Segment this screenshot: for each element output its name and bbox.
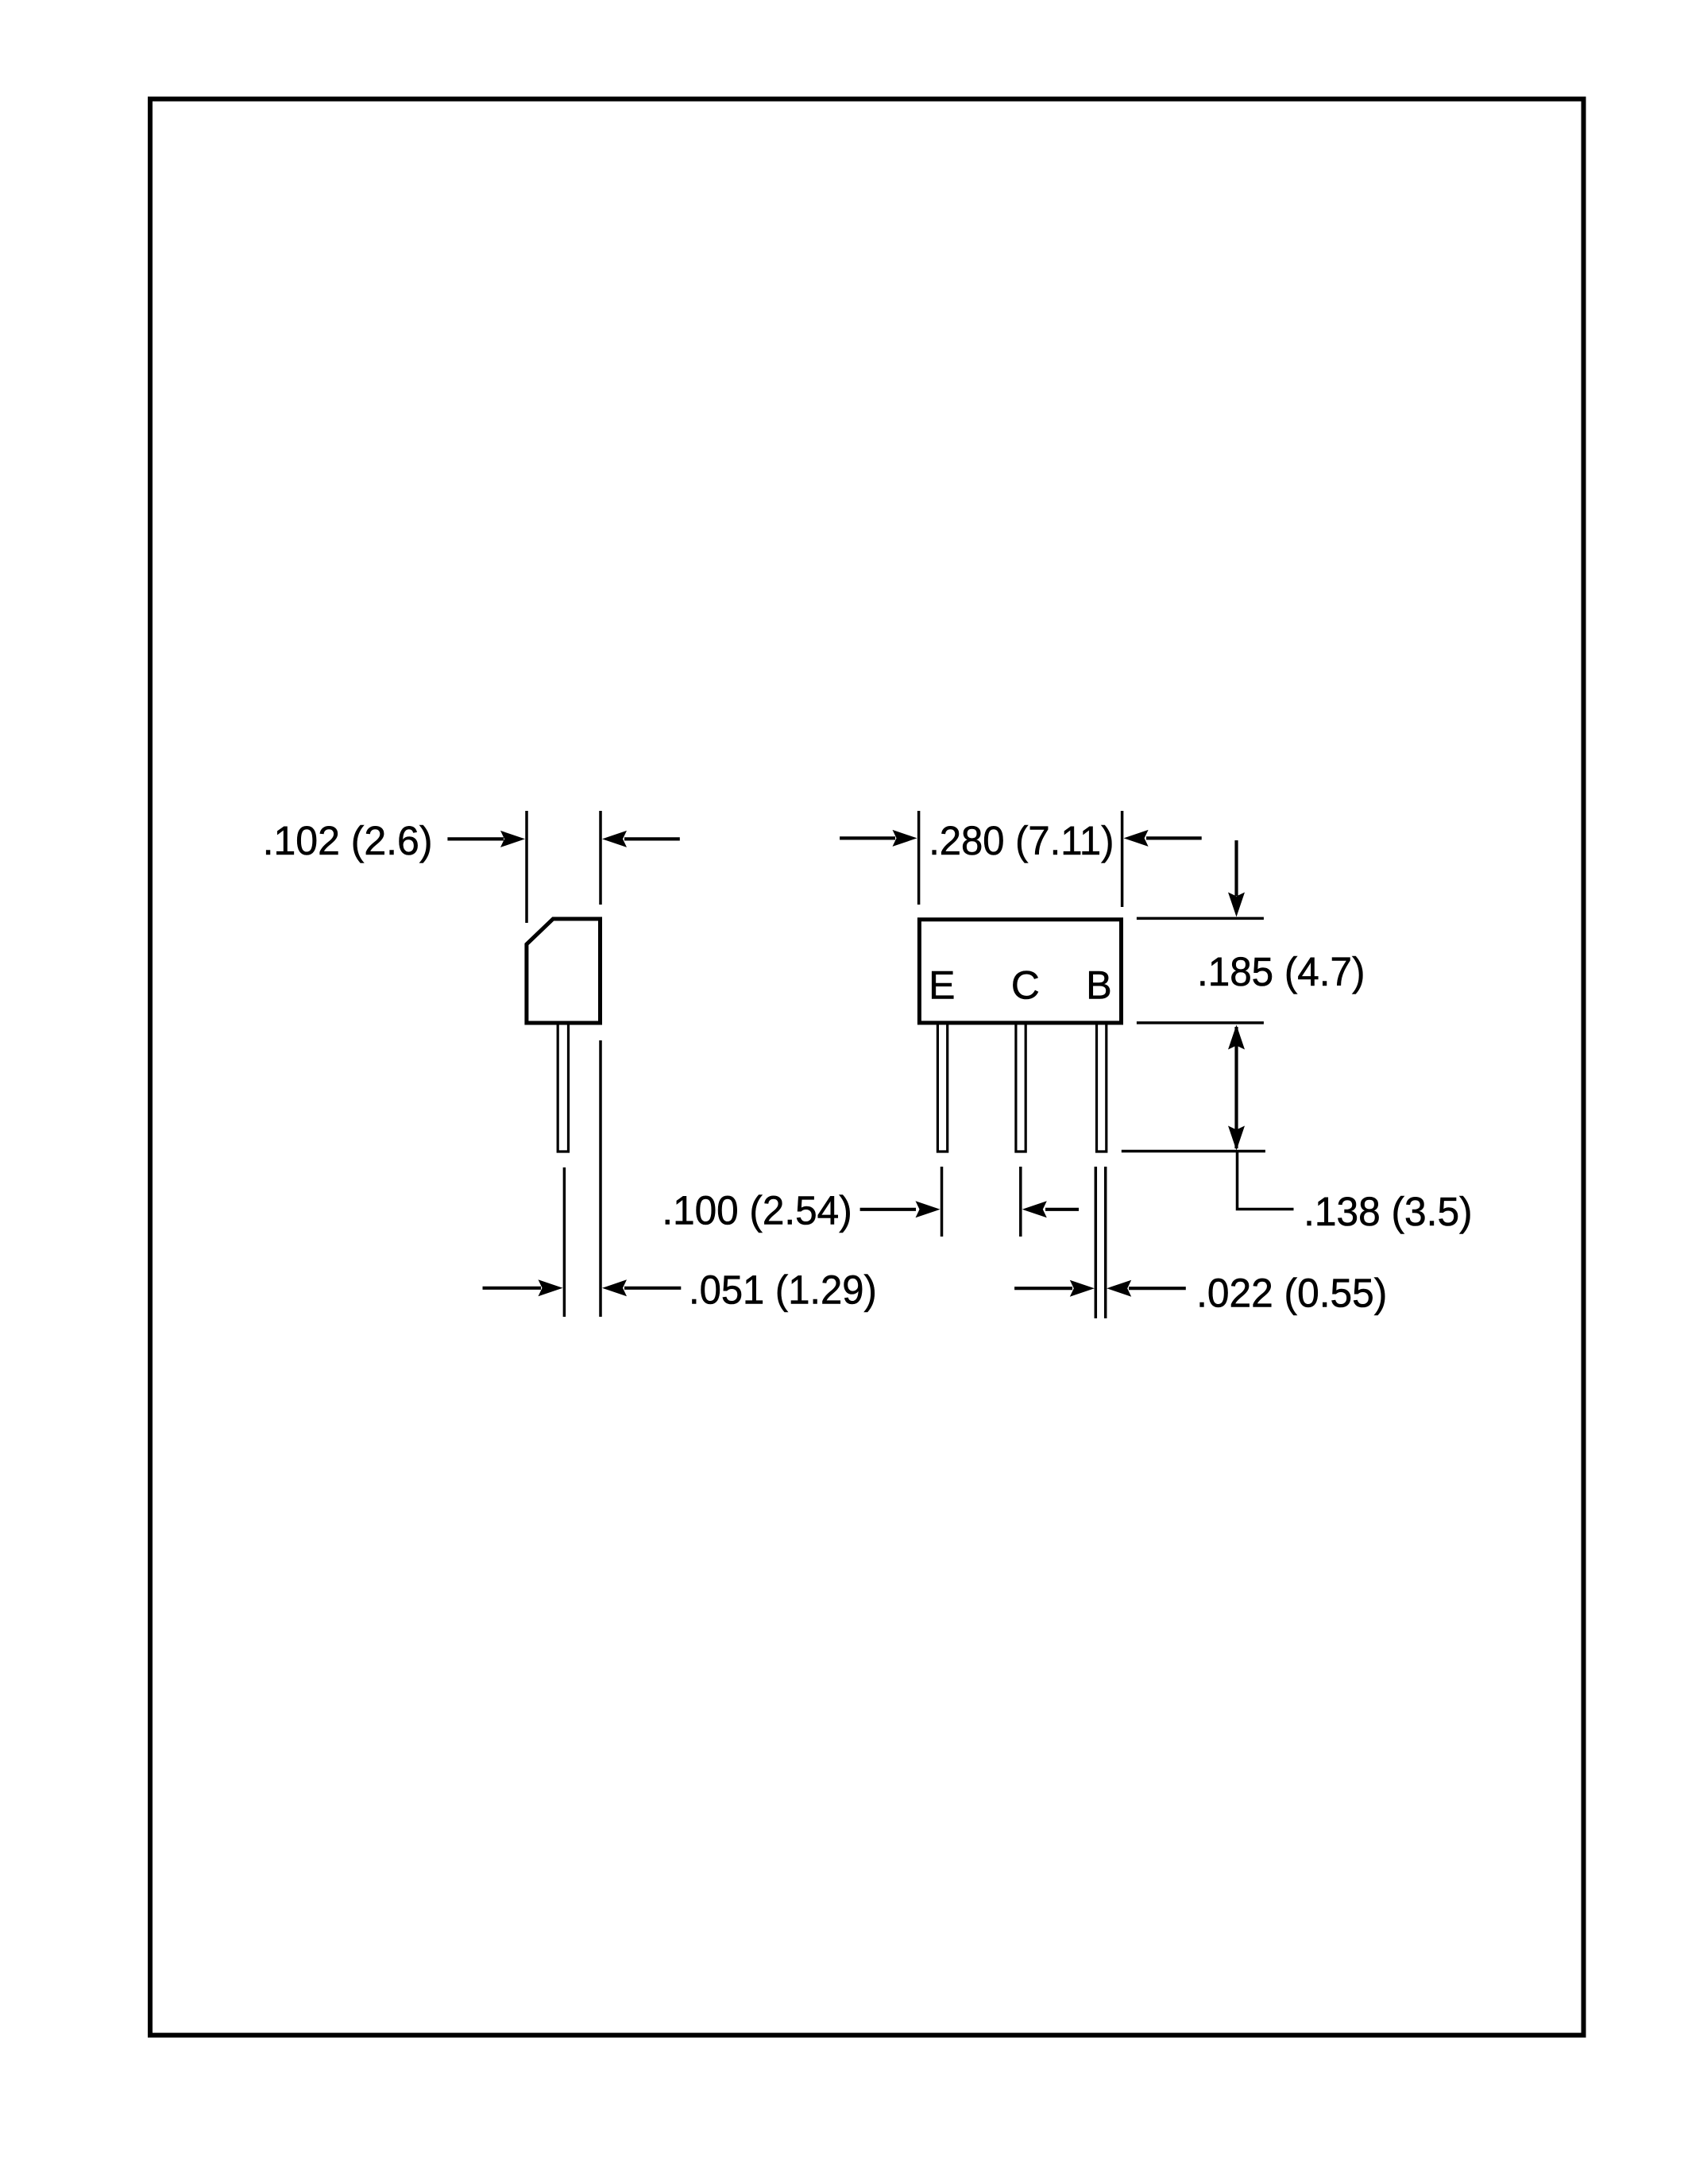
side view lead: [558, 1024, 568, 1152]
front view lead C: [1016, 1024, 1026, 1152]
front view lead E: [937, 1024, 947, 1152]
dimension .051 (1.29) left arrow: [483, 1287, 542, 1290]
svg-text:E: E: [929, 963, 955, 1008]
svg-text:.102 (2.6): .102 (2.6): [263, 818, 433, 863]
dimension .185 (4.7) bottom datum line: [1137, 1021, 1264, 1024]
dimension .102 (2.6) left arrow: [447, 837, 504, 840]
svg-text:.138 (3.5): .138 (3.5): [1304, 1189, 1473, 1234]
side view package body: [527, 919, 601, 1023]
dimension .280 (7.11) right arrow: [1146, 836, 1202, 839]
dimension .138 (3.5) leader: [1238, 1152, 1294, 1210]
front view lead B: [1097, 1024, 1107, 1152]
dimension .022 (0.55) right arrow pointing left: [1129, 1287, 1186, 1290]
dimension .102 (2.6) extension line right: [599, 811, 602, 905]
dimension .100 (2.54) extension line right: [1019, 1167, 1022, 1237]
dimension .022 (0.55) left arrow pointing right: [1014, 1287, 1072, 1290]
dimension .051 (1.29) extension line left: [563, 1167, 566, 1317]
svg-text:.100 (2.54): .100 (2.54): [662, 1188, 852, 1233]
svg-text:.051 (1.29): .051 (1.29): [689, 1268, 877, 1313]
dimension .138 (3.5) lead-bottom datum line: [1122, 1150, 1265, 1153]
svg-text:B: B: [1086, 963, 1111, 1008]
dimension .280 (7.11) extension line right: [1121, 811, 1124, 907]
dimension .102 (2.6) right arrow: [624, 837, 680, 840]
svg-text:.022 (0.55): .022 (0.55): [1196, 1271, 1387, 1316]
svg-text:.280 (7.11): .280 (7.11): [929, 818, 1114, 863]
dimension .100 (2.54) extension line left: [941, 1167, 944, 1237]
dimension .022 (0.55) extension line right: [1104, 1167, 1107, 1318]
page border frame: [150, 99, 1584, 2035]
dimension .051 (1.29) right arrow: [624, 1287, 681, 1290]
dimension .138 (3.5) double arrow shaft: [1234, 1027, 1238, 1148]
svg-text:C: C: [1011, 963, 1040, 1008]
dimension .051 (1.29) extension line right: [599, 1040, 602, 1317]
dimension .185 (4.7) down arrow above top datum: [1234, 840, 1238, 896]
svg-text:.185 (4.7): .185 (4.7): [1197, 949, 1365, 994]
dimension .102 (2.6) extension line left: [525, 811, 528, 923]
dimension .100 (2.54) left arrow: [860, 1208, 916, 1211]
dimension .100 (2.54) right arrow: [1045, 1208, 1079, 1211]
dimension .185 (4.7) top datum line: [1137, 917, 1264, 920]
dimension .280 (7.11) left arrow: [840, 836, 895, 839]
dimension .280 (7.11) extension line left: [917, 811, 921, 905]
dimension .022 (0.55) extension line left: [1095, 1167, 1098, 1318]
front view package body: [919, 920, 1121, 1023]
